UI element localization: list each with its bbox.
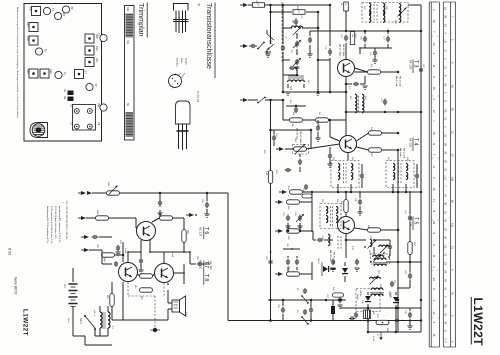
svg-text:3 mA: 3 mA — [124, 248, 127, 253]
svg-text:AF 125: AF 125 — [409, 138, 413, 147]
label c49 — [354, 198, 356, 203]
label c58 — [201, 199, 203, 204]
resistor oval right T4a — [369, 131, 382, 135]
terminal arrow af5 — [186, 213, 197, 217]
label s5 — [324, 46, 326, 50]
capacitor C30 — [388, 240, 392, 256]
svg-text:AM 0,7 mA: AM 0,7 mA — [395, 76, 398, 87]
resistor oval R13b vertical — [265, 171, 273, 184]
svg-text:AM 452 kHz: AM 452 kHz — [329, 250, 332, 261]
capacitor C2 — [281, 28, 285, 60]
wire x398 long — [397, 150, 400, 332]
capacitor C3 — [294, 18, 298, 26]
stub row y106 — [286, 100, 306, 113]
dashed detector box — [320, 204, 341, 229]
label det — [321, 199, 338, 203]
svg-text:S11: S11 — [126, 40, 129, 45]
reference note — [63, 200, 68, 240]
IF coil S22 primary — [369, 3, 371, 22]
IF3 coils — [393, 163, 408, 184]
capacitor C14 — [372, 48, 377, 63]
test point T3 — [97, 33, 108, 42]
terminal arrow af3 — [81, 235, 89, 239]
label c21 — [380, 98, 382, 103]
wire t7 t8 tops — [127, 251, 141, 262]
capacitor C36 — [407, 308, 412, 329]
transistor package side view — [176, 101, 191, 150]
label c32 — [265, 256, 267, 261]
resistor oval under T7 — [110, 282, 123, 320]
label trafo — [111, 326, 113, 330]
wire — [123, 282, 168, 320]
capacitor C11 — [328, 48, 332, 56]
wire det — [311, 230, 313, 240]
svg-text:L1W22T: L1W22T — [22, 309, 29, 336]
label det2 — [368, 244, 387, 274]
transistor T5 — [338, 217, 355, 234]
resistor oval R50 — [138, 274, 155, 278]
test point T2 — [86, 83, 98, 90]
svg-text:S15: S15 — [289, 86, 291, 91]
wire — [287, 144, 340, 149]
ruler strip A borders — [429, 2, 439, 347]
trimmer S13 — [85, 46, 99, 55]
svg-text:1k: 1k — [344, 3, 346, 5]
svg-text:FM 1,6 mA: FM 1,6 mA — [399, 76, 402, 87]
svg-text:S28: S28 — [26, 36, 30, 41]
dashed pair left — [338, 236, 341, 250]
svg-text:R 29 wahlweise R 25 960 Ω: R 29 wahlweise R 25 960 Ω oder 1,2 k — [50, 206, 53, 244]
coil S26 — [321, 234, 330, 245]
svg-text:OA 70: OA 70 — [317, 258, 320, 264]
ground g10 — [157, 213, 162, 216]
wire vertical bus branch — [269, 5, 272, 13]
svg-text:OA 85: OA 85 — [359, 290, 362, 297]
svg-text:OA 85: OA 85 — [356, 294, 359, 300]
wire — [89, 249, 102, 251]
test point T5 — [35, 48, 47, 55]
ground g8 — [354, 268, 359, 271]
label r30 — [296, 6, 302, 19]
output transformer — [93, 306, 110, 336]
wire det links — [354, 231, 390, 258]
label r24 — [413, 242, 415, 247]
label T7 T8 — [199, 260, 214, 285]
svg-text:Ausführung A11 wahlweise R 26: Ausführung A11 wahlweise R 26 1,2 k — [58, 206, 61, 244]
IF transformer 2 dashed box — [331, 161, 359, 188]
ratio det note — [329, 250, 335, 264]
svg-text:L1W22T: L1W22T — [471, 298, 485, 347]
wire t6 collector rail — [141, 241, 150, 253]
terminal arrow af4 — [81, 248, 89, 252]
label r22 — [367, 225, 369, 230]
svg-text:AC 125: AC 125 — [199, 227, 203, 237]
terminal arrow 6 — [275, 272, 283, 276]
switch S12 — [257, 97, 266, 104]
value in R18 — [351, 34, 353, 37]
label t4r — [370, 127, 372, 158]
IF coil S23 secondary — [374, 3, 385, 22]
ground g4 — [285, 92, 290, 95]
ground g2 — [294, 67, 299, 70]
trimmer det — [368, 239, 377, 248]
capacitor C20 — [315, 120, 320, 141]
dot component — [150, 328, 160, 332]
svg-text:OA 85: OA 85 — [388, 291, 391, 297]
ground g3 — [315, 92, 320, 95]
dashed audio — [128, 296, 155, 330]
capacitor C15 — [363, 36, 367, 43]
resistor oval R46 — [152, 216, 184, 222]
transistor T8 — [155, 264, 174, 283]
capacitor C33 — [355, 259, 359, 266]
capacitor C41b — [346, 316, 355, 320]
fine print note (rotated) — [16, 7, 19, 118]
test point T4 — [55, 71, 67, 78]
oval bottom S34 — [332, 287, 344, 297]
trimmer S28 — [26, 36, 38, 45]
resistor oval R44 — [182, 218, 186, 252]
svg-text:FM 10,7 MHz: FM 10,7 MHz — [299, 131, 301, 143]
trimmer cap pair — [296, 214, 304, 222]
transistor T7 — [119, 263, 138, 282]
svg-text:FP: FP — [62, 13, 66, 17]
resistor oval R9 — [316, 112, 329, 122]
striped resistor R43 — [364, 310, 371, 319]
svg-text:1 mA: 1 mA — [171, 252, 174, 257]
cap y187 — [304, 184, 308, 189]
wire — [265, 4, 331, 7]
wire — [300, 262, 313, 280]
label T5 — [409, 217, 419, 231]
lead labels Kollektor Basis Emitter — [172, 58, 188, 81]
labels audio misc — [119, 240, 142, 301]
main title L1W22T — [471, 297, 485, 346]
note 452kHz — [296, 128, 302, 143]
capacitor C39 — [354, 312, 358, 318]
svg-text:432: 432 — [451, 223, 454, 228]
wire y332 — [367, 331, 421, 334]
label t5v — [340, 201, 342, 206]
trimmer coil S52 — [373, 254, 384, 262]
label T4 — [409, 138, 419, 152]
wire — [300, 191, 314, 231]
svg-text:* Ref. J/C/.530.358/.060.305.8: * Ref. J/C/.530.358/.060.305.8 - 040.218 — [65, 200, 67, 240]
resistor oval R52 — [140, 288, 153, 292]
capacitor C35 — [338, 297, 342, 304]
capacitor C32 — [268, 251, 272, 265]
resistor oval stub d — [287, 266, 300, 276]
label c34 — [277, 304, 279, 309]
svg-text:AF 125: AF 125 — [409, 60, 413, 69]
resistor oval R8 — [290, 112, 303, 122]
switch contact S2 — [257, 42, 265, 50]
ground — [265, 52, 271, 56]
wire — [167, 283, 169, 320]
driver cluster — [102, 245, 124, 258]
cap at x311 — [309, 300, 313, 321]
label r18 — [354, 34, 356, 39]
wire y240 — [346, 239, 366, 241]
wire — [99, 236, 112, 238]
switch Sch2 — [79, 315, 96, 336]
wire y300 — [268, 299, 346, 302]
test point T6 — [62, 6, 74, 13]
wire y192 — [320, 191, 421, 194]
label if2 — [332, 157, 408, 161]
diode D1 — [342, 262, 348, 282]
wire horizontal y92 — [288, 91, 346, 94]
capacitor C13 — [344, 35, 348, 42]
svg-text:0,5 M: 0,5 M — [372, 336, 374, 341]
wire — [345, 234, 348, 259]
diode D3 — [393, 292, 399, 308]
note T4 T5 T6 — [196, 91, 199, 103]
wire — [355, 68, 368, 72]
trimmer S20 — [26, 69, 38, 78]
dashed agc box — [293, 145, 309, 155]
wire bottom join — [102, 336, 104, 345]
label r8r9 — [291, 124, 319, 127]
svg-text:8 62: 8 62 — [8, 248, 12, 255]
test point T1 — [97, 103, 108, 111]
ruler strip B borders — [443, 2, 455, 347]
label c27 — [282, 212, 296, 217]
transistor T4 — [340, 136, 357, 153]
label speaker — [67, 312, 187, 324]
svg-text:19: 19 — [432, 221, 436, 224]
date code 8 62 — [8, 248, 12, 255]
resistor oval stub b — [287, 195, 300, 204]
ground g5 — [285, 226, 290, 229]
transistor T1 front end — [267, 30, 274, 54]
battery B1 — [63, 268, 78, 318]
oval y195b — [302, 189, 312, 198]
vertical note AM FM — [339, 44, 345, 57]
terminal arrow AM input — [240, 98, 248, 102]
volume pot arrow — [376, 332, 383, 340]
svg-text:Trimmplan: Trimmplan — [137, 3, 146, 37]
svg-text:S19: S19 — [49, 69, 53, 74]
wire t6 emitter down — [138, 252, 143, 273]
AF line terminal arrows — [78, 191, 92, 195]
wire AF to bracket — [120, 192, 229, 195]
wire — [382, 132, 400, 152]
svg-text:S12: S12 — [126, 7, 129, 12]
label c13 — [340, 34, 385, 41]
capacitor C24 — [360, 164, 364, 188]
ground g6 — [297, 226, 302, 229]
svg-text:S7: S7 — [84, 71, 88, 75]
label driver — [96, 244, 105, 263]
wire — [86, 217, 136, 219]
wire — [365, 31, 388, 48]
wire — [381, 71, 400, 74]
terminal arrow — [240, 44, 248, 48]
wire vertical — [270, 12, 272, 40]
title Transistoranschluesse — [205, 3, 215, 79]
wire t4 base stub — [329, 119, 340, 141]
svg-text:AC 132: AC 132 — [209, 261, 213, 270]
title Trimmplan — [137, 3, 147, 38]
wire audio bottom — [73, 316, 108, 345]
trimmer S18 — [85, 34, 99, 43]
svg-text:T4, T5, T6: T4, T5, T6 — [196, 91, 199, 103]
svg-text:12k: 12k — [351, 34, 353, 37]
ground g1 — [265, 54, 270, 57]
switch contacts S1a — [301, 288, 309, 304]
dashed gang line — [281, 2, 283, 62]
wire — [374, 247, 399, 263]
trimmer capacitor C7 — [293, 40, 301, 48]
wire x421 upper — [420, 20, 422, 60]
wire stub right — [420, 240, 428, 263]
service number Serv 8072 — [14, 277, 18, 294]
svg-text:AM 14,7 MHz: AM 14,7 MHz — [339, 44, 342, 57]
variable coil S24 — [398, 4, 407, 23]
wire — [318, 59, 330, 61]
capacitor C19 — [346, 76, 368, 89]
svg-text:S30: S30 — [29, 7, 33, 12]
wire — [295, 67, 297, 69]
label dl v2 — [356, 291, 391, 316]
wire y112 — [346, 111, 422, 114]
current note af — [124, 248, 174, 257]
capacitor C52 — [92, 235, 99, 239]
stub x360 — [359, 47, 361, 54]
IF transformer 3 dashed box — [386, 161, 414, 188]
label notes mid — [326, 246, 363, 305]
svg-text:FM 1,5 mA: FM 1,5 mA — [403, 148, 406, 159]
capacitor C31 — [331, 259, 335, 266]
terminal arrow 5 — [275, 229, 283, 233]
svg-text:Ger 3: Ger 3 — [185, 312, 187, 318]
svg-text:12: 12 — [432, 311, 436, 314]
wire y308 — [340, 307, 421, 310]
note OA — [359, 290, 392, 299]
wire — [329, 59, 331, 61]
trimmer S7 — [75, 70, 88, 79]
label c2 — [290, 50, 292, 53]
diode D2 — [365, 292, 371, 308]
capacitor C6b — [307, 31, 312, 57]
resistor R5 top — [344, 2, 349, 11]
label c — [285, 36, 287, 39]
capacitor C54 — [197, 262, 210, 266]
wire t6 down — [150, 249, 190, 253]
resistor R1 — [253, 3, 265, 8]
capacitor C16 on bus — [272, 130, 277, 146]
label volume — [372, 336, 374, 341]
label c54 — [196, 256, 198, 261]
svg-text:Kollektor: Kollektor — [176, 58, 179, 67]
wire horizontal y31 — [310, 30, 422, 33]
capacitor C4a — [289, 66, 295, 70]
volume potentiometer R40 — [107, 182, 120, 195]
wire x421 long — [420, 20, 423, 332]
terminal arrow af2 — [78, 216, 86, 220]
wire — [271, 11, 293, 13]
wire — [265, 99, 272, 102]
capacitor C21 — [383, 99, 387, 106]
trimmer S19 — [40, 69, 53, 78]
capacitor C25 — [285, 168, 292, 172]
trimmer S17 — [85, 58, 99, 67]
value in R5 — [344, 3, 346, 5]
resistor oval above T5 — [344, 200, 348, 213]
wire — [283, 59, 290, 61]
terminal arrow 3 — [279, 190, 287, 194]
wire — [345, 191, 348, 217]
IF transformer dashed box — [362, 3, 408, 23]
component S4 S6 blocks — [63, 89, 74, 101]
svg-text:16: 16 — [432, 132, 436, 135]
det coils — [326, 206, 338, 226]
transistor bottom view circle — [169, 75, 182, 89]
speaker — [168, 296, 186, 316]
wire — [141, 240, 150, 252]
capacitor C27 — [286, 215, 290, 222]
wire — [306, 11, 319, 14]
wire af rail — [189, 251, 196, 264]
svg-text:18: 18 — [432, 19, 436, 22]
label r5 — [340, 3, 342, 6]
wire — [271, 99, 284, 101]
ruler strip A numbers — [431, 9, 439, 337]
dashed box det2 — [356, 289, 380, 312]
wire driver — [102, 250, 118, 267]
coil S5 with trimmer — [291, 20, 303, 35]
transistor T6 — [137, 222, 156, 241]
oscillator coil S15 S16 — [288, 76, 305, 91]
wire — [345, 43, 347, 60]
label r44 — [187, 230, 189, 235]
svg-text:15: 15 — [432, 87, 436, 90]
wire — [296, 67, 298, 75]
wire — [288, 223, 300, 231]
ground g7 — [330, 268, 335, 271]
ground g11 — [115, 252, 120, 255]
resistor R30 — [293, 10, 305, 15]
resistor oval R24 — [408, 230, 412, 263]
label s26b — [369, 236, 384, 288]
wire vertical x318 — [317, 12, 320, 92]
junction dots det — [370, 239, 385, 263]
label stub — [287, 186, 289, 241]
resistor oval stub a — [290, 190, 303, 194]
svg-text:15: 15 — [432, 333, 436, 336]
svg-text:R 25 960 Ω Ausf. A11 wahlw: R 25 960 Ω Ausf. A11 wahlw. 120 — [54, 206, 57, 239]
resistor R18 tall — [350, 32, 354, 45]
resistor oval S21 — [368, 70, 381, 74]
wire — [345, 1, 347, 3]
svg-text:Abdruck auch im geteilten Umfa: Abdruck auch im geteilten Umfang nur mit… — [16, 7, 19, 118]
svg-text:Sch 2: Sch 2 — [79, 318, 81, 325]
wire y240b — [373, 239, 390, 241]
svg-text:S25: S25 — [26, 22, 30, 27]
arrow agc — [276, 147, 287, 151]
wire top right — [408, 5, 421, 20]
trimmer capacitor C9 — [293, 58, 301, 66]
label c14 — [369, 52, 371, 57]
wire top bus corner — [408, 5, 421, 31]
svg-text:319: 319 — [451, 177, 454, 182]
current note2 — [399, 148, 406, 159]
trimmer coil S53 — [370, 276, 381, 285]
svg-text:FM 10,7 MHz: FM 10,7 MHz — [342, 44, 344, 56]
diode D0 — [322, 262, 336, 276]
capacitor C17 — [386, 36, 390, 43]
